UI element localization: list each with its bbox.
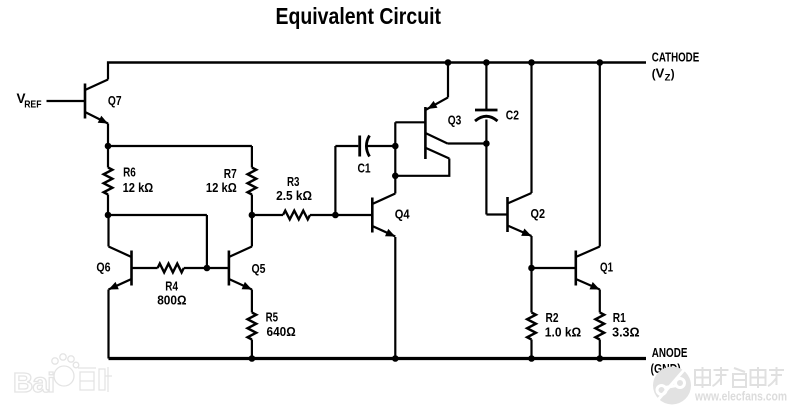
svg-text:www.elecfans.com: www.elecfans.com — [694, 390, 787, 404]
junction dot Q4 emitter to anode rail — [392, 355, 399, 362]
wire R4 to node E — [184, 267, 207, 269]
svg-text:Q3: Q3 — [448, 113, 462, 128]
node ANODE (GND) terminal label — [651, 345, 688, 376]
junction dot node G (Q3 collector 2 tie) — [392, 173, 399, 180]
svg-text:Q6: Q6 — [96, 260, 110, 275]
junction dot node D (C1 tap on Q4 base) — [332, 212, 339, 219]
wire Q3 emitter to top rail — [447, 63, 449, 98]
wire Q6 base to R4 — [132, 267, 158, 269]
junction dot C2 on top rail — [483, 59, 490, 66]
svg-text:REF: REF — [24, 100, 41, 111]
wire V_REF to Q7 base — [47, 100, 86, 102]
node V_REF label — [17, 91, 42, 110]
junction dot Q1 collector on top rail — [597, 59, 604, 66]
resistor R5 — [248, 313, 257, 359]
svg-text:ANODE: ANODE — [652, 345, 688, 360]
svg-text:R3: R3 — [287, 174, 300, 189]
wire Q6 emitter to bottom rail — [107, 290, 109, 359]
wire Q3 collector 2 return to node G — [395, 159, 449, 176]
wire node D up to C1 — [334, 146, 336, 215]
svg-text:Q2: Q2 — [531, 206, 546, 221]
svg-text:R6: R6 — [123, 165, 136, 180]
wire node C to R3 — [252, 214, 283, 216]
junction dot node C (R7 bottom / Q5 collector / R3) — [249, 212, 256, 219]
wire R3 to Q4 base — [310, 214, 372, 216]
transistor Q4 — [372, 194, 395, 237]
label R7 value 12 kOhm — [206, 166, 237, 195]
svg-text:3.3Ω: 3.3Ω — [612, 324, 640, 339]
label R4 value 800 Ohm — [157, 279, 186, 308]
svg-text:R2: R2 — [546, 310, 559, 325]
svg-text:12 kΩ: 12 kΩ — [206, 180, 237, 195]
svg-text:1.0 kΩ: 1.0 kΩ — [545, 324, 581, 339]
capacitor C1 — [360, 136, 370, 157]
resistor R6 — [104, 146, 113, 215]
transistor Q7 — [85, 80, 108, 124]
wire to C1 left plate — [335, 145, 358, 147]
svg-text:R7: R7 — [224, 166, 237, 181]
wire Q5 collector up to node C — [251, 215, 253, 247]
label R6 value 12 kOhm — [123, 165, 154, 195]
resistor R2 — [527, 268, 536, 359]
svg-text:C2: C2 — [506, 108, 519, 123]
svg-text:Equivalent Circuit: Equivalent Circuit — [276, 3, 442, 29]
wire C1 right plate to Q3 base node — [367, 145, 396, 147]
transistor Q3 (PNP, dual collector) — [425, 97, 449, 159]
wire Q2 emitter to node I — [530, 236, 532, 268]
svg-text:Q4: Q4 — [395, 206, 410, 221]
label R3 value 2.5 kOhm — [276, 174, 312, 203]
wire Q3 collector 1 to node H — [448, 142, 487, 144]
label R1 value 3.3 Ohm — [612, 310, 640, 339]
wire branch down to Q5 base node — [206, 215, 208, 268]
junction dot node A (Q7 emitter / R6 / R7 feed) — [105, 143, 112, 150]
resistor R3 — [283, 211, 310, 220]
transistor Q6 — [109, 247, 132, 290]
svg-text:Q1: Q1 — [600, 260, 613, 275]
wire node B to Q5 base branch — [108, 214, 207, 216]
svg-text:12 kΩ: 12 kΩ — [123, 180, 154, 195]
wire node E to Q5 base — [207, 267, 229, 269]
wire node A to R7 top — [108, 145, 252, 147]
svg-text:640Ω: 640Ω — [267, 324, 296, 339]
watermark text dianzi fashaoyou (pseudo CJK) — [695, 367, 784, 388]
junction dot R1 to anode rail — [597, 355, 604, 362]
resistor R4 — [158, 264, 184, 273]
wire top rail to C2 — [485, 63, 487, 111]
wire to Q2 base — [486, 213, 507, 215]
transistor Q2 — [508, 193, 532, 236]
wire Q3 base to node F branch — [395, 121, 425, 123]
svg-text:R5: R5 — [266, 310, 278, 325]
wire Q7 collector to top rail — [107, 64, 109, 80]
wire C2 bottom to node H — [485, 120, 487, 144]
svg-text:Q5: Q5 — [252, 261, 266, 276]
junction dot R2 to anode rail — [528, 355, 535, 362]
wire bottom rail (anode/GND net) — [109, 357, 647, 360]
svg-text:C1: C1 — [358, 161, 371, 176]
svg-text:V: V — [656, 65, 665, 80]
svg-text:): ) — [671, 69, 675, 81]
junction dot node B (R6 bottom) — [105, 212, 112, 219]
wire Q4 emitter to bottom rail — [394, 237, 396, 359]
junction dot Q3 emitter on top rail — [445, 59, 452, 66]
wire Q6 collector up to node B — [107, 215, 109, 247]
junction dot node F (C1 / Q3 base / Q4 collector) — [392, 143, 399, 150]
wire Q2 collector to top rail — [530, 63, 532, 194]
svg-text:2.5 kΩ: 2.5 kΩ — [276, 188, 312, 203]
resistor R7 — [248, 146, 257, 215]
transistor Q5 — [229, 247, 252, 290]
wire Q4 collector up to Q3 base corner — [394, 122, 396, 193]
wire node I to Q1 base — [532, 267, 576, 269]
junction dot node H (Q3 collector 1 / C2 / Q2 base) — [483, 140, 490, 147]
svg-text:Bai: Bai — [13, 367, 55, 398]
watermark elecfans logo (bottom right) — [653, 367, 691, 405]
junction dot node I (Q2 emitter / R2 / Q1 base) — [528, 265, 535, 272]
transistor Q1 — [576, 247, 600, 290]
wire Q5 emitter to R5 — [251, 290, 253, 313]
svg-text:R1: R1 — [613, 310, 626, 325]
svg-text:800Ω: 800Ω — [157, 292, 186, 307]
node CATHODE (VZ) terminal label — [652, 50, 700, 84]
label R5 value 640 Ohm — [266, 310, 296, 340]
wire top rail (cathode net) — [107, 61, 646, 63]
label R2 value 1.0 kOhm — [545, 310, 581, 339]
resistor R1 — [595, 313, 604, 359]
junction dot node E (R4 / Q5 base / node B branch) — [204, 265, 211, 272]
wire node H down to Q2 base — [485, 144, 487, 215]
svg-text:Z: Z — [665, 73, 671, 84]
capacitor C2 — [475, 110, 498, 121]
junction dot Q2 collector on top rail — [528, 59, 535, 66]
watermark baidu baike (bottom left) — [13, 354, 112, 398]
junction dot R5 to anode rail — [249, 355, 256, 362]
svg-text:Q7: Q7 — [108, 93, 122, 108]
wire Q7 emitter down to node A — [107, 124, 109, 147]
svg-text:CATHODE: CATHODE — [652, 50, 700, 65]
wire Q1 collector to top rail — [599, 63, 601, 247]
wire Q1 emitter to R1 — [599, 290, 601, 313]
